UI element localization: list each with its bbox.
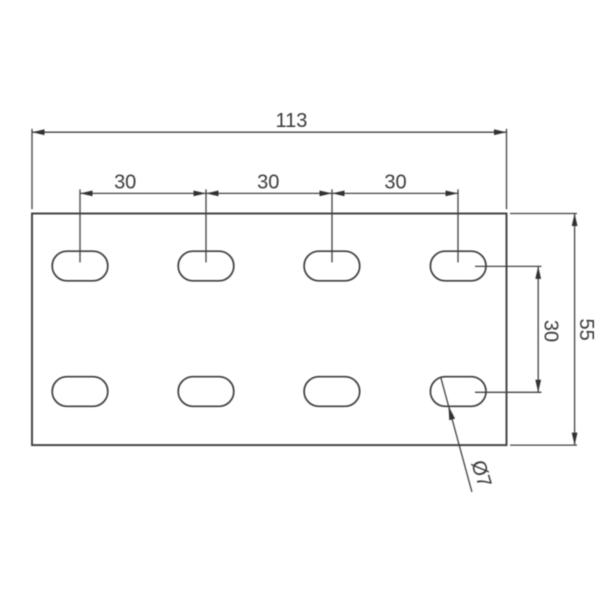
dim 30 right extension line row1 — [475, 265, 542, 267]
dim 30 top dimension line — [80, 192, 458, 194]
arrow 55 top — [572, 214, 578, 227]
dim 30 top extension line 2 — [205, 189, 207, 262]
dim 30 top extension line 4 — [457, 189, 459, 262]
arrow diameter leader — [449, 406, 456, 420]
arrow 30a right — [194, 191, 207, 197]
svg-text:30: 30 — [384, 171, 406, 193]
svg-text:30: 30 — [257, 171, 279, 193]
slot hole A4 — [430, 251, 486, 281]
arrow 113 left — [32, 129, 45, 135]
slot hole A1 — [52, 251, 108, 281]
arrow 30b right — [320, 191, 333, 197]
dim 30 top extension line 3 — [331, 189, 333, 262]
slot hole B4 — [430, 377, 486, 407]
dim 113 extension line left — [31, 129, 33, 209]
arrow 30c right — [446, 191, 459, 197]
arrow 113 right — [494, 129, 507, 135]
arrow 30 right top — [535, 266, 541, 279]
dim 30 top extension line 1 — [79, 189, 81, 262]
svg-text:30: 30 — [114, 171, 136, 193]
slot hole A3 — [304, 251, 360, 281]
svg-text:55: 55 — [575, 318, 597, 340]
arrow 55 bottom — [572, 433, 578, 446]
arrow 30a left — [80, 191, 93, 197]
svg-text:30: 30 — [539, 320, 561, 342]
dim 113 dimension line — [32, 131, 507, 133]
slot hole B2 — [178, 377, 234, 407]
slot hole B1 — [52, 377, 108, 407]
svg-text:113: 113 — [276, 110, 308, 132]
slot hole B3 — [304, 377, 360, 407]
arrow 30c left — [332, 191, 345, 197]
dim 113 extension line right — [506, 129, 508, 209]
plate outline — [32, 214, 507, 446]
dim 30 right dimension line — [537, 266, 539, 392]
arrow 30 right bottom — [535, 380, 541, 393]
dim 55 dimension line — [574, 214, 576, 446]
dim 55 extension line top — [510, 213, 577, 215]
diameter leader line — [441, 378, 472, 492]
slot hole A2 — [178, 251, 234, 281]
dim 30 right extension line row2 — [475, 391, 542, 393]
dim 55 extension line bottom — [510, 444, 577, 446]
arrow 30b left — [206, 191, 219, 197]
